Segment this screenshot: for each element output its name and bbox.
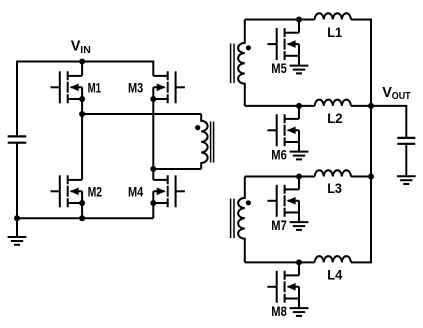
junction dot node A: [79, 111, 85, 117]
wire input cap to bottom rail: [16, 143, 18, 219]
junction dot M8 drain: [296, 259, 302, 265]
wire M6 drain: [298, 106, 300, 119]
wire bottom rail: [16, 217, 153, 219]
transformer T1 secondary 2 phase dot: [246, 200, 251, 205]
svg-text:M8: M8: [271, 304, 287, 319]
inductor L2: [315, 100, 351, 106]
wire output cap to ground: [405, 144, 407, 176]
junction dot M4 source: [150, 200, 156, 206]
wire VOUT to output cap: [371, 106, 406, 138]
transformer T1 primary winding: [201, 114, 207, 169]
junction dot node B: [150, 166, 156, 172]
wire M3 source to M4 drain: [152, 99, 154, 180]
svg-text:M5: M5: [271, 61, 287, 76]
ground input: [8, 237, 27, 245]
ground M6: [290, 152, 309, 160]
svg-text:IN: IN: [80, 44, 91, 56]
svg-text:V: V: [71, 39, 81, 55]
svg-text:L4: L4: [327, 267, 343, 282]
svg-text:L3: L3: [327, 181, 342, 196]
svg-text:M2: M2: [88, 184, 103, 199]
label VOUT: [382, 85, 411, 102]
wire ground drop: [16, 218, 18, 237]
wire M4 source to rail: [152, 203, 154, 218]
junction dot M6 drain: [296, 103, 302, 109]
capacitor CIN: [8, 136, 27, 142]
svg-text:V: V: [382, 85, 392, 101]
svg-text:L2: L2: [327, 111, 342, 126]
transformer T1 secondary 1 core: [231, 44, 234, 84]
wire M8 drain: [298, 262, 300, 275]
wire VIN rail: [16, 62, 153, 76]
junction dot L3 rail: [368, 174, 374, 180]
label VIN: [71, 39, 91, 56]
transformer T1 primary phase dot: [195, 125, 200, 130]
transformer T1 secondary 2 winding: [238, 177, 245, 263]
inductor L1: [315, 13, 351, 19]
transistor M3: [153, 71, 185, 103]
transformer T1 secondary 2 core: [231, 199, 234, 239]
junction dot M1 drain: [79, 59, 85, 65]
svg-text:M4: M4: [128, 184, 144, 199]
transformer T1 core: [211, 122, 214, 163]
wire secondary1 top to L1: [245, 19, 315, 21]
transformer T1 secondary 1 phase dot: [246, 45, 251, 50]
junction dot M3 source: [150, 96, 156, 102]
transformer T1 secondary 1 winding: [238, 20, 245, 106]
svg-text:OUT: OUT: [392, 90, 411, 102]
junction dot M2 rail: [79, 215, 85, 221]
svg-text:M1: M1: [88, 80, 102, 95]
junction dot M7 drain: [296, 174, 302, 180]
wire M7 drain: [298, 177, 300, 190]
transistor M2: [50, 175, 82, 207]
transistor M4: [153, 175, 185, 207]
junction dot rail-cap: [14, 215, 20, 221]
wire VOUT rail vertical: [351, 106, 371, 263]
wire M6 source to ground: [298, 142, 300, 152]
wire M5 drain: [298, 20, 300, 33]
transistor M5: [267, 28, 299, 60]
wire M5 source to ground: [298, 56, 300, 66]
svg-text:L1: L1: [327, 25, 342, 40]
wire primary bottom to node B: [153, 168, 201, 170]
junction dot M1 source: [79, 96, 85, 102]
transistor M6: [267, 114, 299, 146]
wire node A to primary top: [82, 113, 201, 115]
wire secondary2 top to L3: [245, 176, 315, 178]
svg-text:M7: M7: [271, 218, 287, 233]
wire M7 source to ground: [298, 213, 300, 223]
ground M8: [290, 308, 309, 316]
transistor M8: [267, 271, 299, 303]
inductor L4: [315, 256, 351, 262]
junction dot M5 drain: [296, 17, 302, 23]
ground output: [397, 176, 416, 184]
svg-text:M3: M3: [128, 80, 144, 95]
wire L3 to VOUT rail: [351, 176, 371, 178]
junction dot VOUT: [368, 103, 374, 109]
junction dot M2 source: [79, 200, 85, 206]
wire secondary2 bottom to L4: [245, 261, 315, 263]
svg-text:M6: M6: [271, 148, 287, 163]
wire secondary1 bottom to L2: [245, 105, 315, 107]
capacitor COUT: [397, 138, 415, 144]
wire M8 source to ground: [298, 299, 300, 309]
inductor L3: [315, 170, 351, 176]
transistor M1: [50, 71, 82, 103]
wire M1 source to M2 drain: [81, 99, 83, 180]
ground M5: [290, 66, 309, 74]
wire M2 source to rail: [81, 203, 83, 218]
wire left vertical to input cap: [16, 62, 18, 137]
wire L1 to VOUT rail: [351, 20, 371, 106]
wire M1 drain: [81, 62, 83, 76]
ground M7: [290, 222, 309, 230]
wire L2 to VOUT node: [351, 105, 371, 107]
transistor M7: [267, 185, 299, 217]
